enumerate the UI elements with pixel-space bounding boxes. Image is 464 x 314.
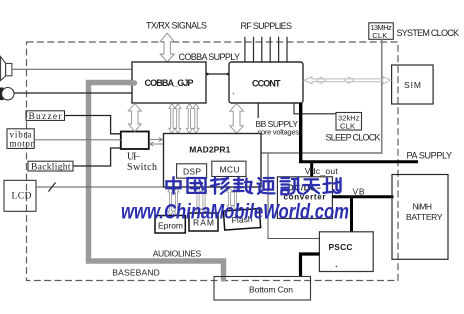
- wire: clock branch to PSCC: [268, 153, 319, 239]
- block Eprom: [155, 216, 185, 234]
- svg-text:SIM: SIM: [404, 80, 421, 90]
- wire: thick drop to PSCC: [350, 197, 353, 232]
- block MCU: [212, 161, 246, 176]
- svg-text:CLK: CLK: [340, 122, 355, 131]
- 中: [167, 177, 181, 194]
- block MAD2PR1: [164, 134, 262, 188]
- wire: vibra to UI switch: [34, 139, 121, 141]
- svg-text:TX/RX SIGNALS: TX/RX SIGNALS: [146, 21, 207, 31]
- svg-text:MCU: MCU: [220, 164, 240, 174]
- arrows: COBBA to MAD2PR1 narrow pairs: [169, 104, 199, 134]
- svg-text:Vdc_out: Vdc_out: [305, 166, 339, 176]
- wire: thick PSCC to bottom connector: [301, 254, 320, 277]
- svg-text:PA SUPPLY: PA SUPPLY: [407, 151, 453, 161]
- svg-text:BATTERY: BATTERY: [406, 212, 443, 222]
- wire: CCONT to 32kHz box: [294, 103, 336, 114]
- wire: thick gray audio bus: [89, 83, 224, 280]
- svg-text:Switch: Switch: [127, 162, 157, 173]
- block UI-Switch: [121, 132, 157, 174]
- svg-text:MAD2PR1: MAD2PR1: [189, 145, 230, 155]
- wire: buzzer to UI switch: [65, 116, 121, 134]
- block Buzzer: [26, 111, 65, 122]
- svg-text:UI–: UI–: [127, 152, 141, 163]
- arrow: TX/RX bidirectional hollow: [160, 33, 174, 62]
- wire: thick drop to DC/DC: [310, 163, 313, 177]
- wire: COBBA to CCONT: [206, 73, 229, 75]
- svg-text:CLK: CLK: [372, 31, 387, 40]
- block COBBA_GJP: [131, 62, 206, 103]
- wire: thick Vdc_out / PA supply bus: [299, 160, 418, 163]
- svg-text:SYSTEM CLOCK: SYSTEM CLOCK: [397, 28, 460, 38]
- arrow: COBBA to UI-switch hollow: [128, 104, 141, 132]
- baseband dashed boundary: [27, 42, 399, 281]
- svg-text:COBBA_GJP: COBBA_GJP: [145, 78, 194, 88]
- 動: [234, 178, 253, 194]
- 地: [324, 178, 341, 193]
- block Flash: [223, 209, 260, 230]
- svg-text:LCD: LCD: [12, 192, 32, 202]
- block vibra motor: [7, 129, 34, 149]
- svg-text:NiMH: NiMH: [413, 202, 433, 212]
- block Backlight: [28, 161, 73, 172]
- block 32kHz CLK: [336, 113, 362, 131]
- block CCONT: [229, 62, 303, 103]
- 移: [211, 178, 229, 194]
- watermark row1: Chinese characters: [167, 177, 341, 194]
- block Bottom Con: [214, 277, 311, 301]
- block 13MHz CLK: [369, 23, 394, 40]
- 國: [188, 178, 206, 193]
- svg-text:SLEEP CLOCK: SLEEP CLOCK: [326, 133, 381, 143]
- wire: speaker to COBBA: [12, 68, 132, 70]
- svg-text:www.ChinaMobileWorld.com: www.ChinaMobileWorld.com: [121, 201, 349, 224]
- wire: backlight to UI switch: [73, 148, 121, 166]
- svg-text:Backlight: Backlight: [31, 163, 71, 173]
- block SIM: [392, 65, 434, 104]
- block NiMH BATTERY: [392, 175, 448, 260]
- svg-text:BASEBAND: BASEBAND: [112, 268, 160, 278]
- 訊: [281, 178, 303, 195]
- label BB SUPPLY / core voltages: [257, 103, 259, 118]
- arrows: MAD2PR1 to memories narrow: [168, 188, 238, 216]
- svg-text:motor: motor: [10, 139, 34, 149]
- svg-text:AUDIOLINES: AUDIOLINES: [153, 249, 202, 259]
- speaker SPK: [1, 57, 12, 81]
- arrow: CCONT to MAD2PR1 hollow: [230, 104, 244, 134]
- arrows: UI switch to MAD2PR1 small: [149, 138, 163, 147]
- block PSCC: [319, 232, 373, 272]
- 通: [258, 178, 275, 194]
- arrow: CCONT to SIM hollow: [304, 77, 391, 84]
- wire: thick CCONT down to Vdc bus: [299, 103, 302, 162]
- svg-text:COBBA SUPPLY: COBBA SUPPLY: [179, 52, 241, 62]
- microphone MIC: [0, 88, 14, 101]
- block DSP: [177, 164, 207, 178]
- block DC/DC converter: [277, 177, 332, 219]
- svg-text:Bottom Con: Bottom Con: [249, 285, 293, 295]
- svg-text:VB: VB: [353, 187, 365, 197]
- svg-text:RF SUPPLIES: RF SUPPLIES: [241, 21, 293, 31]
- svg-text:PSCC: PSCC: [329, 242, 353, 252]
- block RAM: [189, 213, 218, 231]
- svg-text:DSP: DSP: [183, 167, 201, 177]
- wire: mic to COBBA: [14, 92, 132, 94]
- block LCD: [4, 180, 36, 211]
- svg-text:CCONT: CCONT: [252, 78, 281, 88]
- wire: LCD to MAD2PR1 with bus slash: [36, 186, 164, 188]
- svg-text:core voltages: core voltages: [258, 128, 300, 137]
- wires: 6 RF supply lines: [245, 37, 287, 62]
- 天: [304, 179, 320, 193]
- wire: 13MHz clock line down and to MAD2PR1: [261, 39, 382, 153]
- wire: thick VB line to battery: [332, 195, 393, 198]
